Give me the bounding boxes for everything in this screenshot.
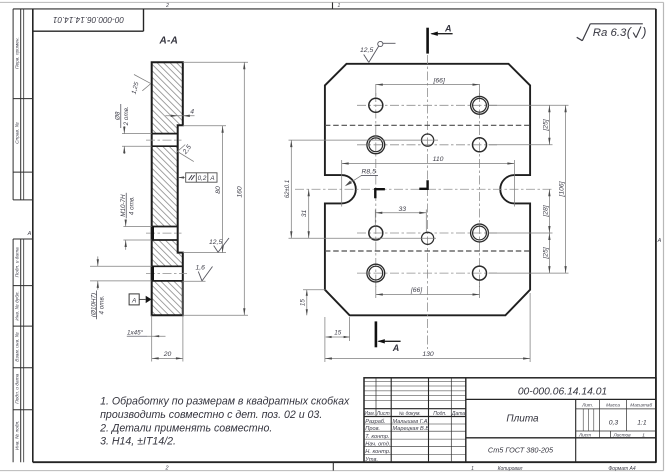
hole band Ø10H7 in section — [146, 266, 187, 281]
dimension [25] right lower — [542, 233, 550, 273]
svg-text:130: 130 — [422, 351, 434, 358]
dimension 80 — [183, 126, 226, 253]
zone divider marks — [164, 2, 340, 471]
svg-text:Масса: Масса — [606, 402, 620, 407]
svg-text:1:1: 1:1 — [637, 419, 647, 426]
svg-text:[66]: [66] — [410, 287, 423, 294]
centre hole upper Ø8 — [422, 134, 434, 146]
hole row 3 left М10 — [369, 226, 383, 240]
dimension 15 horizontal bottom — [326, 317, 350, 341]
dimension 33 — [375, 206, 426, 232]
svg-text:Изм.: Изм. — [364, 411, 375, 417]
bottom strip labels — [471, 466, 636, 472]
dimension [66] bottom — [376, 283, 480, 299]
svg-text:1,6: 1,6 — [196, 264, 206, 271]
section cut mark bottom with arrow А — [376, 321, 401, 353]
hole row 3 right Ø10H7 — [471, 224, 489, 242]
svg-text:А-А: А-А — [158, 36, 178, 47]
svg-text:Подп. и дата: Подп. и дата — [14, 373, 20, 403]
hole band Ø8 in section — [146, 134, 182, 147]
svg-text:Плита: Плита — [506, 413, 539, 424]
svg-text:): ) — [640, 26, 646, 40]
dimension 15 vertical left — [299, 290, 325, 316]
svg-text:Лист: Лист — [578, 432, 591, 437]
dimension 130 — [325, 293, 530, 362]
svg-text:№ докум.: № докум. — [399, 411, 421, 417]
svg-text:20: 20 — [163, 351, 172, 358]
svg-text:1: 1 — [642, 432, 645, 437]
dimension R8,5 with leader — [345, 169, 378, 187]
dimension [66] top — [376, 77, 480, 96]
hole row 2 left Ø10H7 — [367, 136, 385, 154]
dimension [28] right — [489, 189, 553, 233]
svg-text:Пров.: Пров. — [365, 426, 380, 432]
title block name cell Плита — [466, 399, 656, 462]
dimension 4 (step) — [165, 109, 194, 117]
svg-text:А: А — [131, 297, 136, 304]
svg-text:4 отв.: 4 отв. — [99, 295, 106, 314]
section cut mark top with arrow А — [428, 23, 453, 53]
svg-text:00-000.06.14.14.01: 00-000.06.14.14.01 — [53, 15, 124, 24]
svg-text:Н. контр.: Н. контр. — [365, 449, 390, 455]
plan view plate outline — [325, 64, 530, 315]
svg-text:1: 1 — [338, 3, 341, 9]
svg-text:110: 110 — [433, 156, 444, 163]
roughness 12,5 on step — [209, 238, 229, 252]
svg-text:4 отв.: 4 отв. — [128, 196, 135, 215]
svg-text:0,3: 0,3 — [609, 419, 619, 426]
svg-text:Взам. инв. №: Взам. инв. № — [14, 332, 20, 362]
section body outline — [152, 62, 183, 315]
svg-text:(Ø10Н7): (Ø10Н7) — [90, 293, 97, 317]
svg-text:Подп.: Подп. — [433, 411, 446, 417]
hole row 4 left Ø10H7 — [367, 264, 385, 282]
svg-text:М10-7Н: М10-7Н — [120, 194, 127, 217]
svg-text:3. Н14, ±IT14/2.: 3. Н14, ±IT14/2. — [100, 435, 176, 447]
svg-text:12,5: 12,5 — [360, 47, 373, 54]
svg-text:80: 80 — [215, 186, 222, 194]
left margin column: Перв. примен. / Справ. № — [13, 9, 33, 200]
svg-text:2. Детали применять совместно.: 2. Детали применять совместно. — [99, 423, 272, 435]
plan centerlines vertical — [376, 55, 480, 349]
centre hole lower Ø8 — [422, 232, 434, 244]
dimension (Ø10Н7) 4 отв. — [90, 256, 152, 319]
svg-text:Ra 6.3: Ra 6.3 — [593, 27, 627, 39]
svg-text:00-000.06.14.14.01: 00-000.06.14.14.01 — [518, 387, 607, 398]
svg-text:2 отв.: 2 отв. — [123, 106, 130, 126]
parallelism tolerance frame 0,2 A — [178, 173, 217, 182]
dimension 62±0.1 left — [285, 140, 438, 238]
svg-text:[25]: [25] — [542, 118, 549, 131]
svg-text:А: А — [444, 23, 452, 33]
svg-text:производить совместно с дет. п: производить совместно с дет. поз. 02 и 0… — [100, 409, 322, 421]
svg-text:[66]: [66] — [433, 77, 446, 84]
general roughness mark Ra 6.3 — [577, 24, 647, 41]
svg-text:2: 2 — [164, 466, 168, 472]
svg-text:1: 1 — [471, 466, 474, 472]
dimension 20 — [152, 281, 183, 362]
svg-text:15: 15 — [299, 299, 306, 307]
svg-text:Лит.: Лит. — [581, 402, 593, 407]
svg-text:Ø8: Ø8 — [115, 111, 122, 121]
dimension М10-7Н 4 отв. — [120, 193, 152, 250]
dimension [25] right upper — [489, 105, 569, 145]
svg-text:12,5: 12,5 — [209, 239, 222, 246]
hidden step edges (dashed) — [325, 125, 530, 251]
dimension 1,25 leader — [130, 75, 150, 96]
svg-text:Дата: Дата — [451, 411, 465, 417]
technical notes text — [99, 395, 350, 447]
title block document number cell — [466, 387, 656, 400]
dimension Ø8 2 отв. — [115, 104, 152, 154]
svg-text:А: А — [392, 343, 400, 353]
svg-text:Лист: Лист — [376, 411, 390, 417]
svg-text:Листов: Листов — [612, 432, 631, 437]
svg-text:Т. контр.: Т. контр. — [365, 434, 389, 440]
dimension 110 — [342, 156, 515, 207]
svg-text:Справ. №: Справ. № — [14, 122, 20, 144]
svg-text:Нач. отд.: Нач. отд. — [365, 441, 390, 447]
thread marks at band edges — [151, 227, 154, 281]
svg-text:2,5: 2,5 — [181, 144, 193, 157]
svg-text:Масштаб: Масштаб — [630, 402, 652, 407]
dimension 1х45° — [127, 329, 166, 338]
svg-text:Утв.: Утв. — [364, 457, 378, 463]
section cut corner marks — [375, 180, 427, 198]
left margin column: инвентарные графы — [13, 239, 33, 462]
svg-text:Формат А4: Формат А4 — [608, 466, 636, 472]
hole row 1 right Ø10H7 — [471, 96, 489, 114]
svg-text:Марецкая В.В: Марецкая В.В — [393, 426, 430, 432]
svg-text:(: ( — [627, 26, 633, 40]
svg-text:160: 160 — [237, 186, 244, 198]
title block outer border — [364, 378, 656, 462]
title block revision table — [364, 378, 466, 463]
svg-text:R8,5: R8,5 — [362, 169, 377, 176]
svg-text:Копировал: Копировал — [498, 466, 523, 472]
svg-text:[25]: [25] — [542, 246, 549, 259]
plan centerlines horizontal — [295, 105, 552, 273]
hole band М10 in section — [146, 227, 182, 241]
svg-text:[106]: [106] — [558, 180, 565, 197]
datum flag A — [129, 294, 152, 305]
dimension [106] right — [489, 105, 569, 273]
section body hatching — [152, 62, 183, 315]
dimension 160 — [183, 62, 248, 315]
title block лит масса масштаб — [576, 399, 656, 437]
svg-text:Инв. № дубл.: Инв. № дубл. — [14, 291, 20, 321]
svg-text:0,2: 0,2 — [198, 175, 207, 182]
svg-text:А: А — [27, 231, 32, 237]
svg-text:1. Обработку по размерам в ква: 1. Обработку по размерам в квадратных ск… — [100, 395, 350, 407]
svg-text:Малышев Г.А.: Малышев Г.А. — [393, 419, 430, 425]
dimension 2,5 chamfer leader — [177, 144, 193, 162]
rotated document number stamp — [33, 9, 144, 31]
hole row 2 right М10 — [473, 138, 487, 152]
svg-text:1,25: 1,25 — [130, 81, 140, 95]
roughness 1,6 on hole — [183, 264, 213, 281]
svg-text:Инв. № подл.: Инв. № подл. — [14, 420, 20, 450]
svg-text:Перв. примен.: Перв. примен. — [14, 37, 20, 69]
dimension 31 left — [301, 189, 310, 238]
hole row 4 right Ø8 — [473, 266, 487, 280]
svg-text:4: 4 — [190, 109, 194, 116]
title block лист листов row — [578, 432, 645, 437]
svg-text:[28]: [28] — [542, 204, 549, 217]
roughness flag 12,5 (top-left of plan) — [360, 41, 396, 62]
svg-text:33: 33 — [399, 206, 407, 213]
svg-text:31: 31 — [301, 210, 308, 218]
svg-text:А: А — [209, 175, 214, 182]
svg-text:Разраб.: Разраб. — [365, 419, 385, 425]
svg-text:2: 2 — [165, 3, 169, 9]
svg-text:А: А — [657, 238, 662, 244]
svg-text:Ст5 ГОСТ 380-205: Ст5 ГОСТ 380-205 — [488, 446, 554, 455]
svg-text:1х45°: 1х45° — [127, 329, 144, 337]
hole row 1 left Ø8 — [369, 98, 383, 112]
svg-text:15: 15 — [334, 329, 342, 336]
svg-text:Подп. и дата: Подп. и дата — [14, 247, 20, 277]
svg-text:62±0.1: 62±0.1 — [285, 180, 291, 198]
